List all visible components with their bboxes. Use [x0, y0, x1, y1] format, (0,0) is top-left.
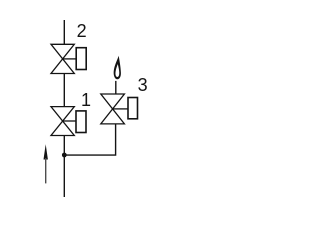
wire: stem from valve 2 to actuator 2 [63, 58, 76, 60]
wire: branch from junction to valve 3 (elbow) [64, 124, 115, 155]
wire: stem from valve 3 to actuator 3 [113, 108, 128, 110]
svg-text:2: 2 [77, 21, 87, 41]
actuator box of valve 2 [76, 48, 86, 70]
wire: pipe between valve 2 and valve 1 [63, 74, 65, 107]
flame (flare/burner symbol) [114, 56, 121, 80]
node: junction dot [62, 153, 67, 158]
valve 2 (bowtie body) [51, 44, 74, 73]
wire: stem from valve 1 to actuator 1 [63, 120, 76, 122]
valve 1 (bowtie body) [51, 107, 74, 136]
wire: main pipe below valve 1 to bottom edge [63, 136, 65, 198]
valve 3 (bowtie body) [101, 94, 125, 124]
wire: inlet riser above valve 2 [63, 20, 65, 44]
wire: vent stem above valve 3 [115, 81, 117, 94]
actuator box of valve 1 [76, 111, 86, 133]
svg-text:3: 3 [138, 75, 148, 95]
arrow: flow direction indicator [44, 144, 48, 159]
svg-text:1: 1 [81, 90, 91, 110]
actuator box of valve 3 [128, 98, 138, 119]
